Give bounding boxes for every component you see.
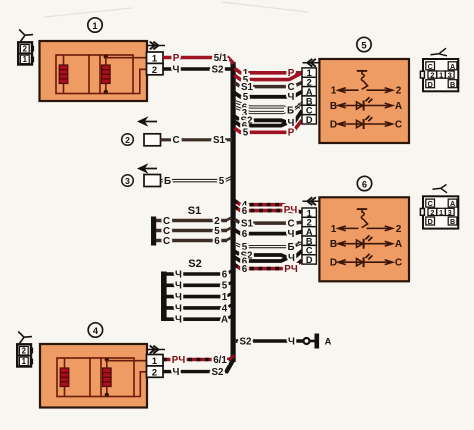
wire S S1 to pin2 [235, 219, 303, 223]
svg-text:S2: S2 [212, 64, 225, 75]
label circle 6 [357, 176, 371, 190]
component 3 [122, 165, 231, 187]
label circle 5 [357, 37, 371, 51]
svg-text:B: B [450, 217, 455, 226]
svg-text:Ч: Ч [175, 303, 182, 314]
cell C [426, 62, 435, 70]
wire P 5/1 from comp1 pin1 to trunk [163, 53, 229, 64]
label circle 4 [88, 323, 102, 337]
splice block S2 [161, 258, 232, 326]
svg-text:А: А [325, 337, 332, 347]
label circle 2 [122, 134, 134, 146]
fork symbol [431, 48, 448, 56]
lamp row D-C [338, 116, 393, 129]
svg-text:Р: Р [288, 128, 295, 139]
direction arrow [139, 165, 157, 171]
connector pinout of switch 5 [420, 48, 458, 91]
connector arrow marker [303, 59, 321, 67]
svg-text:C: C [428, 199, 433, 208]
svg-text:3: 3 [448, 208, 452, 217]
resistor element left [60, 368, 69, 387]
wire B 6 (white) to pinB [236, 101, 284, 108]
svg-text:2: 2 [22, 347, 27, 356]
svg-text:6: 6 [214, 236, 220, 247]
ground branch S2 to point A [236, 334, 332, 349]
svg-text:2: 2 [430, 71, 434, 80]
svg-text:1: 1 [23, 55, 28, 64]
junction dot bottom [104, 90, 108, 94]
svg-text:Б: Б [287, 105, 294, 116]
svg-text:С: С [287, 219, 294, 230]
junction dot bottom [105, 393, 109, 397]
svg-text:S1: S1 [188, 205, 201, 217]
svg-text:1: 1 [92, 21, 97, 31]
pin B box [302, 236, 316, 245]
internal wire to pin 2 [134, 372, 147, 397]
connector X1 of component 1 [18, 30, 34, 65]
svg-text:6: 6 [242, 206, 248, 217]
svg-text:1: 1 [152, 356, 157, 366]
wire S S1 to trunk [161, 138, 233, 141]
scratch marks [44, 2, 308, 17]
wire RCh 6 merging to pin1 [235, 207, 296, 212]
svg-text:1: 1 [331, 86, 337, 97]
pin D box [302, 255, 316, 264]
svg-text:РЧ: РЧ [172, 355, 186, 366]
svg-text:B: B [330, 239, 337, 250]
switch 6: right door window switch [302, 176, 409, 281]
notch [420, 209, 424, 216]
svg-text:3: 3 [125, 176, 130, 186]
connector X2 of component 4 [17, 332, 33, 367]
wire Ch 5 to pinA [235, 92, 303, 97]
svg-text:РЧ: РЧ [284, 264, 298, 275]
cell 2 [428, 208, 437, 215]
svg-text:D: D [330, 120, 337, 131]
svg-text:Ч: Ч [288, 336, 295, 347]
svg-text:6: 6 [242, 264, 248, 275]
svg-text:1: 1 [22, 357, 27, 366]
device body [144, 134, 161, 146]
svg-text:S2: S2 [240, 336, 253, 347]
cell A [448, 62, 457, 70]
pin cell 1 [20, 55, 29, 64]
wire Ch S2 to pinC [235, 251, 288, 257]
svg-text:S2: S2 [188, 258, 201, 270]
wire RCh 6/1 from comp4 pin1 to trunk [163, 355, 235, 366]
wire S 5 [156, 229, 227, 232]
svg-text:D: D [330, 258, 337, 269]
wire trunk bottom bend to S2 black wire [226, 360, 234, 373]
pin A box [302, 227, 316, 236]
armature line left [64, 358, 66, 397]
wire S 6 [156, 239, 227, 242]
block bar [161, 272, 167, 322]
svg-text:1: 1 [439, 71, 443, 80]
terminal tab 2 [32, 46, 34, 52]
wire P 1 to pin1 [235, 68, 303, 73]
winding loop right [100, 55, 133, 94]
pin cell 1 [19, 357, 28, 366]
resistor element right [103, 368, 112, 387]
svg-text:D: D [428, 80, 433, 89]
pin D box [302, 115, 316, 124]
svg-text:С: С [163, 236, 170, 247]
svg-text:Р: Р [173, 53, 180, 64]
svg-text:S1: S1 [241, 219, 254, 230]
svg-text:Б: Б [164, 176, 171, 187]
pin 2 box [147, 63, 164, 74]
svg-text:D: D [306, 115, 313, 125]
svg-text:C: C [395, 258, 402, 269]
svg-text:2: 2 [23, 45, 28, 54]
wires from trunk to switch 5 [235, 68, 303, 139]
svg-text:A: A [450, 199, 455, 208]
switch lever symbol [357, 71, 368, 90]
svg-text:D: D [306, 255, 313, 265]
lamp row B-A [338, 97, 393, 110]
cell 3 [445, 71, 454, 78]
wire S 2 [156, 219, 227, 222]
winding loop left [56, 55, 89, 94]
contact row 1-2 [338, 226, 393, 231]
svg-text:Ч: Ч [288, 92, 295, 103]
pin cell 2 [20, 45, 29, 54]
svg-text:4: 4 [93, 326, 99, 336]
motor body [40, 41, 148, 101]
terminal tab 1 [32, 57, 34, 63]
switch body [319, 59, 409, 143]
wire B 3 (white) merging to pinB [236, 102, 302, 114]
pin 1 box [147, 355, 164, 366]
svg-text:D: D [428, 217, 433, 226]
svg-text:Ч: Ч [175, 315, 182, 326]
junction dot top [105, 357, 109, 361]
connector arrow marker [303, 197, 321, 205]
svg-text:1: 1 [439, 208, 443, 217]
wire Ch 5 [166, 283, 227, 287]
armature line right [105, 55, 107, 94]
component 4: right window motor-reducer [40, 323, 165, 408]
outer shell [423, 59, 458, 91]
wire B 5 (white) to trunk [161, 177, 231, 182]
svg-text:А: А [221, 315, 228, 326]
wire Ch 6 to pinA [235, 230, 303, 234]
connector eyelet [304, 338, 310, 344]
cell 3 [445, 208, 454, 215]
splice block S1 [151, 205, 232, 247]
svg-text:B: B [330, 101, 337, 112]
svg-text:6: 6 [362, 179, 367, 189]
wire Ch S2 from comp1 pin2 to trunk [163, 64, 232, 75]
cell D [426, 217, 435, 225]
cell B [448, 217, 457, 225]
svg-text:5/1: 5/1 [214, 53, 228, 64]
svg-text:S1: S1 [213, 135, 226, 146]
svg-text:C: C [428, 62, 433, 71]
svg-text:5: 5 [361, 40, 366, 50]
terminal tab 2 [31, 348, 33, 354]
cell 1 [437, 71, 446, 78]
MAIN WIRE HARNESS TRUNK [163, 58, 236, 373]
svg-text:3: 3 [448, 71, 452, 80]
component 1: left window motor-reducer [40, 18, 166, 101]
pin C box [302, 105, 316, 114]
svg-text:1: 1 [331, 224, 337, 235]
svg-text:C: C [395, 120, 402, 131]
svg-text:Ч: Ч [288, 253, 295, 264]
pin A box [302, 87, 316, 96]
cell B [448, 80, 457, 88]
svg-text:Ч: Ч [175, 292, 182, 303]
wire trunk bundle [231, 62, 236, 362]
svg-text:2: 2 [152, 367, 157, 377]
label circle 1 [88, 18, 102, 32]
connector arrow marker [147, 42, 165, 50]
svg-text:5: 5 [222, 281, 228, 292]
direction arrow [139, 118, 157, 124]
switch body [319, 197, 409, 281]
armature line right [106, 358, 108, 397]
svg-text:A: A [450, 62, 455, 71]
connector body [17, 344, 31, 366]
wire S S1 to pin2 [235, 82, 303, 86]
fork symbol [18, 332, 32, 344]
merged segment into pinC [287, 111, 303, 123]
pin 2 box [302, 77, 316, 86]
connector body [18, 42, 32, 64]
junction dot top [104, 54, 108, 58]
internal wire to pin 1 [106, 57, 147, 59]
loop bridge bottom [90, 396, 101, 398]
switch lever symbol [357, 209, 368, 228]
wire Ch 6 merging to pinC [235, 122, 288, 126]
svg-text:РЧ: РЧ [284, 205, 298, 216]
svg-text:B: B [450, 80, 455, 89]
pin C box [302, 245, 316, 254]
device body [144, 175, 161, 187]
svg-text:Ч: Ч [173, 64, 180, 75]
svg-text:Ч: Ч [173, 367, 180, 378]
ground bar A [315, 334, 320, 349]
wire Ch 1 [166, 295, 227, 299]
pin cell 2 [19, 347, 28, 356]
svg-text:6: 6 [222, 269, 228, 280]
resistor element left [59, 65, 68, 84]
svg-text:2: 2 [430, 208, 434, 217]
wire Ch S2 to pinC [235, 116, 288, 122]
terminal tab 1 [31, 359, 33, 365]
svg-text:4: 4 [222, 303, 228, 314]
lamp row B-A [338, 235, 393, 248]
pin 1 box [302, 208, 316, 217]
wire Ch S2 from trunk to comp4 pin2 [163, 370, 228, 373]
cell D [426, 80, 435, 88]
pin B box [302, 96, 316, 105]
wires from trunk to switch 6 [235, 200, 303, 275]
svg-text:2: 2 [152, 65, 157, 75]
svg-text:2: 2 [396, 224, 402, 235]
svg-text:2: 2 [125, 135, 130, 145]
cell 2 [428, 71, 437, 78]
resistor element right [102, 65, 111, 84]
svg-text:Б: Б [287, 242, 294, 253]
winding loop left [57, 358, 90, 397]
cell 1 [437, 208, 446, 215]
motor body [40, 344, 147, 408]
outer shell [423, 196, 458, 228]
svg-text:С: С [172, 135, 179, 146]
svg-text:Ч: Ч [175, 269, 182, 280]
internal wire to pin 1 [107, 360, 147, 362]
fork symbol [19, 30, 33, 42]
merged segment into pinC [287, 251, 303, 258]
wire B 5 (white) to pinB [236, 241, 302, 248]
contact row 1-2 [338, 88, 393, 93]
loop bridge top [89, 54, 100, 56]
svg-text:6/1: 6/1 [213, 355, 227, 366]
svg-text:1: 1 [222, 292, 228, 303]
svg-text:6: 6 [242, 229, 248, 240]
component 2 [122, 118, 232, 146]
svg-text:Ч: Ч [175, 281, 182, 292]
pin 2 box [147, 366, 164, 377]
wire P 5 merging into pin1 [235, 73, 302, 79]
armature line left [63, 55, 65, 94]
pin 2 box [302, 217, 316, 226]
svg-text:5: 5 [219, 176, 225, 187]
wire Ch 6 [166, 272, 227, 276]
wire Ch 6 merging to pinC [235, 257, 288, 261]
wire trunk top bend (red feed) [228, 58, 234, 64]
wire Ch S2 labels from comp4 pin2 [173, 367, 224, 378]
winding loop right [101, 358, 134, 397]
svg-text:Ч: Ч [288, 229, 295, 240]
block bar [151, 217, 156, 246]
connector pinout of switch 6 [420, 185, 458, 229]
notch [420, 71, 424, 78]
cell A [448, 199, 457, 207]
loop bridge top [90, 357, 101, 359]
wire RCh 4 to pin1 [235, 201, 302, 213]
svg-text:A: A [395, 101, 402, 112]
cell C [426, 199, 435, 207]
connector arrow marker [147, 346, 165, 354]
svg-text:1: 1 [152, 53, 157, 63]
pin 1 box [147, 52, 164, 63]
wire Ch 4 [166, 306, 227, 310]
label circle 3 [122, 175, 134, 187]
wire P 5 to pinD [235, 120, 303, 132]
wire RCh 6 to pinD [235, 260, 303, 268]
wire Ch A [166, 317, 227, 321]
svg-text:2: 2 [396, 86, 402, 97]
fork symbol [433, 185, 448, 193]
svg-text:5: 5 [243, 128, 249, 139]
internal wire to pin 2 [133, 69, 147, 93]
pin 1 box [302, 68, 316, 77]
loop bridge bottom [89, 93, 100, 95]
svg-text:A: A [395, 239, 402, 250]
switch 5: left door window switch [302, 37, 409, 143]
svg-text:S2: S2 [212, 367, 225, 378]
lamp row D-C [338, 254, 393, 267]
